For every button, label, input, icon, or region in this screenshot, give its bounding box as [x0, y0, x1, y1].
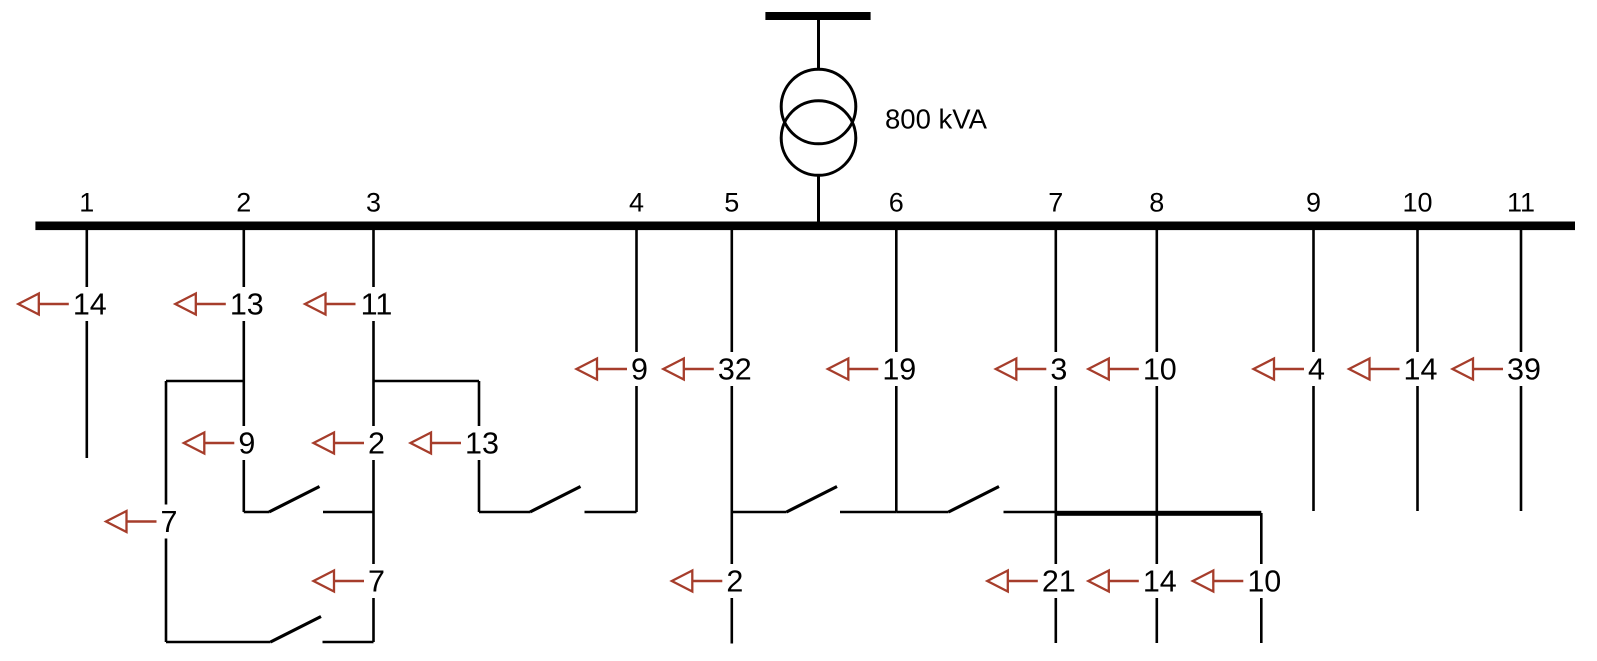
load arrow 14 at node 1	[18, 287, 110, 322]
svg-text:9: 9	[631, 353, 648, 387]
feeder wire node 9	[1312, 230, 1315, 511]
svg-text:7: 7	[1048, 188, 1063, 218]
load arrow 39 at node 11	[1453, 352, 1545, 387]
tie wire node 6 side of switch S4	[896, 511, 948, 514]
svg-text:2: 2	[368, 427, 385, 461]
svg-text:3: 3	[366, 188, 381, 218]
svg-text:2: 2	[236, 188, 251, 218]
load arrow 32 at node 5	[663, 352, 755, 387]
svg-text:1: 1	[79, 188, 94, 218]
svg-text:4: 4	[629, 188, 644, 218]
svg-text:3: 3	[1050, 353, 1067, 387]
load arrow 21 lower node 7 feeder	[987, 564, 1079, 599]
open switch S2 blade	[530, 487, 581, 513]
load arrow 14 at node 10	[1349, 352, 1441, 387]
wire source to transformer	[817, 20, 820, 70]
load arrow 2 on node 3 feeder	[314, 426, 390, 461]
svg-text:2: 2	[726, 565, 743, 599]
svg-text:13: 13	[230, 288, 264, 322]
feeder wire node 6	[895, 230, 898, 512]
main busbar (nodes 1-11)	[35, 222, 1575, 231]
node 11 label	[1507, 188, 1535, 218]
svg-text:14: 14	[1404, 353, 1438, 387]
node 8 label	[1149, 188, 1164, 218]
tie wire node 5 side of switch S3	[732, 511, 787, 514]
svg-text:10: 10	[1143, 353, 1177, 387]
load arrow 3 at node 7	[996, 352, 1072, 387]
load arrow 7 on left branch	[106, 505, 182, 540]
branch tap wire node 2 to left branch	[166, 380, 244, 383]
open switch S4 blade	[949, 487, 1000, 513]
feeder wire node 7	[1055, 230, 1058, 643]
node 9 label	[1306, 188, 1321, 218]
open switch S1 blade	[269, 487, 320, 513]
bottom tie wire left of switch S5	[166, 641, 271, 644]
node 6 label	[889, 188, 904, 218]
branch tap wire node 3 to right branch	[374, 380, 480, 383]
transformer T1 rating label 800 kVA	[885, 104, 988, 135]
bottom tie wire node 3 side of switch S5	[323, 641, 374, 644]
load arrow 10 at node 8	[1088, 352, 1180, 387]
svg-text:13: 13	[465, 427, 499, 461]
feeder wire node 11	[1520, 230, 1523, 511]
tie busbar nodes 7 to 8	[1055, 511, 1262, 516]
load arrow 9 at node 4	[577, 352, 653, 387]
svg-text:9: 9	[1306, 188, 1321, 218]
load arrow 13 on right branch	[411, 426, 503, 461]
svg-text:19: 19	[882, 353, 916, 387]
svg-text:39: 39	[1507, 353, 1541, 387]
load arrow 14 lower node 8 feeder	[1088, 564, 1180, 599]
tie wire node 2 side of switch S1	[244, 511, 269, 514]
feeder wire node 5	[730, 230, 733, 644]
svg-text:800 kVA: 800 kVA	[885, 104, 988, 135]
tie wire node 4 side of switch S2	[585, 511, 637, 514]
node 3 label	[366, 188, 381, 218]
svg-text:10: 10	[1402, 188, 1432, 218]
svg-text:5: 5	[724, 188, 739, 218]
svg-text:6: 6	[889, 188, 904, 218]
tie wire node 7 side of switch S4	[1004, 511, 1056, 514]
node 4 label	[629, 188, 644, 218]
feeder wire node 10	[1416, 230, 1419, 511]
tie wire node 6 side of switch S3	[840, 511, 896, 514]
transformer T1 source terminal bar	[765, 12, 870, 20]
svg-text:8: 8	[1149, 188, 1164, 218]
svg-text:10: 10	[1247, 565, 1281, 599]
load arrow 10 on tie busbar drop	[1193, 564, 1285, 599]
svg-text:7: 7	[161, 505, 178, 539]
svg-text:9: 9	[238, 427, 255, 461]
feeder wire node 3	[372, 230, 375, 642]
load arrow 9 on node 2 feeder	[184, 426, 259, 461]
svg-text:7: 7	[368, 565, 385, 599]
transformer T1 primary winding	[781, 69, 856, 144]
feeder wire node 1	[86, 230, 89, 458]
node 10 label	[1402, 188, 1432, 218]
node 2 label	[236, 188, 251, 218]
svg-text:21: 21	[1042, 565, 1076, 599]
svg-text:4: 4	[1308, 353, 1325, 387]
svg-text:11: 11	[361, 288, 393, 322]
branch wire right of node 3	[478, 381, 481, 512]
svg-text:14: 14	[1143, 565, 1177, 599]
load arrow 19 at node 6	[828, 352, 920, 387]
load arrow 13 at node 2	[175, 287, 267, 322]
load arrow 7 lower node 3 feeder	[314, 564, 390, 599]
svg-text:14: 14	[73, 288, 107, 322]
branch wire left of node 2	[165, 381, 168, 642]
transformer T1 secondary winding	[781, 101, 856, 176]
svg-text:11: 11	[1507, 188, 1535, 218]
tie wire branch side of switch S2	[479, 511, 530, 514]
wire transformer to busbar	[817, 175, 820, 222]
load arrow 4 at node 9	[1254, 352, 1330, 387]
node 1 label	[79, 188, 94, 218]
load arrow 11 at node 3	[305, 287, 397, 322]
feeder wire node 2	[243, 230, 246, 512]
svg-text:32: 32	[718, 353, 752, 387]
load arrow 2 lower node 5 feeder	[672, 564, 748, 599]
node 5 label	[724, 188, 739, 218]
node 7 label	[1048, 188, 1063, 218]
open switch S5 blade	[271, 617, 322, 643]
open switch S3 blade	[787, 487, 838, 513]
drop wire from tie busbar	[1260, 513, 1263, 643]
feeder wire node 4	[635, 230, 638, 512]
feeder wire node 8	[1156, 230, 1159, 643]
tie wire node 3 side of switch S1	[323, 511, 374, 514]
